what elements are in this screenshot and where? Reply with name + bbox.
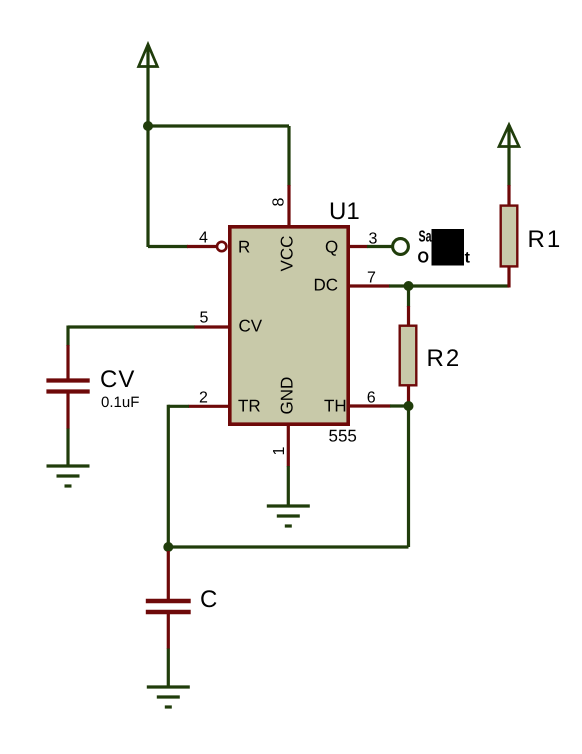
svg-text:TH: TH	[324, 397, 347, 416]
resistor R1 body	[501, 206, 518, 267]
pin 4 inversion bubble	[217, 242, 226, 251]
resistor R1 bottom lead (red)	[507, 267, 510, 288]
capacitor C bottom lead (red)	[167, 614, 170, 650]
wire: pin4 horizontal (green part)	[148, 245, 188, 248]
svg-text:0.1uF: 0.1uF	[101, 394, 139, 411]
svg-text:U1: U1	[329, 198, 360, 225]
svg-text:3: 3	[369, 231, 378, 248]
pin 5 stub (red)	[194, 325, 228, 328]
svg-text:Q: Q	[325, 238, 338, 257]
pin 7 stub (red)	[350, 284, 390, 287]
pin 8 stub (red)	[287, 185, 290, 225]
svg-text:t: t	[465, 250, 471, 267]
wire: R2 junction down to bottom row (green)	[407, 406, 410, 547]
resistor R2 bottom lead (red)	[407, 386, 410, 403]
wire: pin8 column vertical (green part)	[287, 126, 290, 186]
wire: pin5 horizontal (green)	[68, 325, 195, 328]
wire: pin7 to R1 bottom (green)	[389, 284, 509, 287]
resistor R2 body	[400, 326, 417, 386]
svg-text:GND: GND	[278, 377, 297, 415]
wire: CV to ground (green)	[66, 429, 69, 466]
wire: pin1 to ground (green)	[287, 466, 290, 505]
wire: left power rail horizontal to pin8 column	[148, 124, 289, 127]
capacitor CV top lead (red)	[66, 345, 69, 379]
capacitor CV bottom lead (red)	[66, 393, 69, 429]
capacitor C plates	[146, 599, 191, 603]
node: junction DC/R2	[404, 281, 414, 291]
power symbol VCC (top-left arrow)	[139, 44, 158, 247]
svg-text:DC: DC	[314, 276, 339, 295]
wire: R2 top (green)	[407, 286, 410, 307]
wire: pin2 down to bottom row (green)	[167, 405, 170, 547]
svg-text:TR: TR	[238, 397, 261, 416]
svg-text:Sa: Sa	[419, 229, 432, 246]
resistor R2 top lead (red)	[407, 306, 410, 325]
svg-text:R: R	[238, 238, 250, 257]
svg-text:VCC: VCC	[278, 236, 297, 272]
svg-text:R2: R2	[427, 345, 462, 372]
output terminal circle	[393, 239, 409, 255]
svg-text:6: 6	[367, 390, 376, 407]
capacitor CV plates	[46, 378, 89, 382]
svg-text:8: 8	[271, 198, 288, 207]
power symbol VCC (top-right arrow)	[499, 125, 519, 186]
svg-text:C: C	[200, 586, 217, 613]
svg-text:5: 5	[200, 310, 209, 327]
svg-text:O: O	[418, 250, 430, 267]
wire: CV cap column (green)	[66, 326, 69, 347]
svg-text:2: 2	[199, 390, 208, 407]
svg-text:1: 1	[271, 447, 288, 456]
pin 2 stub (red)	[189, 405, 229, 408]
node: junction bottom row / C	[163, 542, 173, 552]
svg-text:CV: CV	[100, 366, 135, 393]
svg-text:7: 7	[367, 270, 376, 287]
IC U1 (555 timer) body	[230, 227, 348, 424]
node: junction TH/R2	[404, 401, 414, 411]
capacitor C top lead (red)	[167, 551, 170, 600]
pin 4 stub (red)	[187, 245, 217, 248]
black redaction box	[432, 229, 465, 266]
svg-text:R1: R1	[528, 226, 563, 253]
ground (C)	[147, 687, 190, 707]
wire: C to ground (green)	[167, 649, 170, 687]
pin 1 stub (red)	[287, 426, 290, 467]
resistor R1 top lead (red)	[507, 185, 510, 205]
wire: pin3 to output terminal (green)	[367, 245, 392, 248]
svg-text:4: 4	[199, 230, 208, 247]
ground (pin 1 GND)	[267, 506, 310, 526]
ground (CV)	[47, 466, 90, 486]
svg-text:555: 555	[329, 427, 357, 446]
wire: pin2 horizontal (green)	[168, 405, 189, 408]
wire: pin6 to R2 bottom (green)	[390, 404, 409, 407]
node: junction at left rail	[143, 121, 153, 131]
pin 6 stub (red)	[350, 404, 391, 407]
wire: bottom row horizontal (green)	[168, 545, 408, 548]
pin 3 stub (red)	[350, 245, 368, 248]
svg-text:CV: CV	[239, 317, 263, 336]
